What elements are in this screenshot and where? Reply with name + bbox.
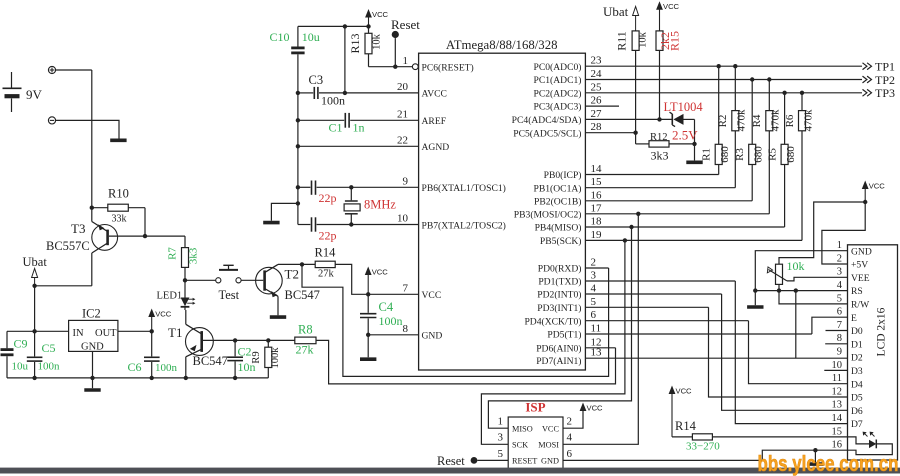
svg-text:PB3(MOSI/OC2): PB3(MOSI/OC2): [514, 209, 582, 220]
power VCC at chip pin 7: [366, 292, 370, 296]
svg-text:VCC: VCC: [869, 182, 886, 191]
wire pot wiper to LCD VEE: [787, 277, 848, 281]
svg-text:11: 11: [832, 373, 842, 384]
svg-text:SCK: SCK: [512, 440, 528, 449]
wire PD1 to LCD D7: [735, 281, 847, 424]
svg-text:100n: 100n: [38, 361, 61, 373]
wire PD5 to LCD E: [812, 317, 848, 334]
voltage regulator IC2: [69, 307, 118, 353]
svg-text:2: 2: [837, 253, 842, 264]
svg-text:26: 26: [591, 95, 603, 107]
svg-text:19: 19: [591, 229, 603, 241]
wire LCD RS row (grounded): [755, 290, 847, 292]
resistor R1 680: [701, 66, 732, 174]
svg-text:22p: 22p: [319, 229, 337, 243]
capacitor C3 100n: [298, 73, 345, 108]
transistor T2 BC547 (NPN): [256, 264, 320, 315]
ground xtal: [263, 221, 279, 225]
diode LT1004 2.5V: [664, 100, 704, 160]
resistor R11 10k: [615, 31, 649, 144]
pin 26 PC3(ADC3): [534, 95, 619, 113]
svg-text:TP2: TP2: [875, 73, 895, 87]
pin 16 PB2(OC1B): [534, 189, 752, 207]
wire ISP MOSI to PB3: [563, 214, 638, 444]
svg-text:VCC: VCC: [372, 268, 389, 277]
svg-text:28: 28: [591, 121, 603, 133]
wire R8 to PD6: [316, 340, 616, 384]
pushbutton Test: [185, 265, 263, 302]
svg-text:VCC: VCC: [587, 404, 604, 413]
svg-text:680: 680: [719, 146, 731, 163]
pin 4 PD2(INT0): [537, 283, 721, 301]
svg-text:GND: GND: [81, 342, 104, 353]
svg-text:PC2(ADC2): PC2(ADC2): [534, 88, 582, 99]
wire AVCC row to chip: [345, 92, 419, 94]
svg-text:1: 1: [403, 55, 409, 67]
svg-text:2: 2: [591, 257, 597, 269]
svg-text:PB1(OC1A): PB1(OC1A): [534, 183, 582, 194]
svg-text:22p: 22p: [319, 191, 337, 205]
svg-text:C9: C9: [14, 337, 28, 351]
transistor T1 BC547 (NPN, mirrored): [168, 310, 228, 378]
resistor R9 100k: [251, 340, 281, 378]
ground at C4: [360, 357, 376, 361]
ground LCD backlight: [807, 462, 823, 466]
svg-text:IC2: IC2: [82, 307, 101, 321]
pin 6 LCD E: [837, 307, 857, 324]
node TP3 taps: [782, 91, 786, 95]
svg-text:PC4(ADC4/SDA): PC4(ADC4/SDA): [512, 115, 582, 126]
node TP3: [863, 89, 867, 96]
wire PD3 to LCD D5: [709, 307, 848, 397]
svg-text:R/W: R/W: [851, 300, 870, 311]
pin 11 PD5(T1): [547, 323, 812, 341]
svg-text:23: 23: [591, 55, 603, 67]
LED LED1: [157, 280, 196, 310]
pin 11 LCD D4: [832, 373, 863, 390]
svg-text:470k: 470k: [770, 109, 782, 132]
pin 6 PD4(XCK/T0): [524, 309, 748, 327]
pin 27 PC4(ADC4/SDA): [512, 108, 673, 126]
wire R10 right to T3 base line: [144, 208, 146, 236]
pin 3 LCD VEE: [837, 267, 870, 284]
pin 14 LCD D7: [832, 413, 863, 430]
svg-text:8MHz: 8MHz: [364, 198, 396, 212]
svg-text:5: 5: [498, 448, 504, 460]
svg-text:9: 9: [403, 176, 409, 188]
svg-text:R3: R3: [734, 148, 746, 161]
wire ground rail: [7, 377, 268, 379]
svg-text:E: E: [851, 313, 857, 324]
pin 12 LCD D5: [832, 386, 863, 403]
pin 18 PB4(MISO): [535, 216, 785, 234]
resistor R14 33-270 (backlight): [672, 419, 720, 453]
pin 8 LCD D1: [837, 333, 863, 350]
svg-text:R15: R15: [668, 31, 682, 51]
svg-text:6: 6: [837, 307, 842, 318]
svg-text:R9: R9: [251, 351, 262, 363]
svg-text:VCC: VCC: [372, 10, 389, 19]
node TP2: [863, 76, 867, 83]
pin 15 LCD backlight: [832, 426, 843, 437]
svg-text:10: 10: [397, 213, 409, 225]
svg-text:D0: D0: [851, 326, 863, 337]
wire LCD D3 stub: [824, 369, 847, 371]
op-amp U1 ATmega8/88/168/328 box: [419, 53, 586, 370]
capacitor C1 1n (AREF): [298, 113, 419, 135]
test point Reset (bottom): [437, 454, 508, 468]
power VCC at LCD: [862, 181, 869, 190]
node LCD pin16 ground tap: [813, 448, 817, 452]
wire AGND row: [298, 145, 419, 147]
svg-text:10k: 10k: [787, 259, 805, 273]
pin 21 AREF: [397, 109, 446, 128]
svg-text:bbs.ylcee.com.cn: bbs.ylcee.com.cn: [758, 451, 899, 476]
net Ubat (left): [23, 255, 48, 286]
wire IC2 GND down: [92, 351, 94, 378]
svg-text:D5: D5: [851, 393, 863, 404]
ground battery minus: [110, 139, 126, 143]
svg-text:11: 11: [591, 323, 602, 335]
potentiometer 10k: [767, 259, 804, 284]
svg-text:PC6(RESET): PC6(RESET): [422, 63, 474, 74]
pin 5 PD3(INT1): [537, 296, 708, 314]
svg-text:GND: GND: [851, 246, 872, 257]
svg-text:4: 4: [567, 432, 573, 444]
svg-text:OUT: OUT: [95, 328, 117, 339]
wire LCD pin1 GND: [755, 251, 847, 291]
svg-text:MISO: MISO: [512, 424, 533, 433]
wire chip GND pin 8: [368, 334, 418, 336]
svg-text:21: 21: [397, 109, 408, 121]
pin 8 GND: [403, 323, 443, 342]
svg-text:18: 18: [591, 216, 603, 228]
svg-text:14: 14: [591, 163, 603, 175]
svg-text:MOSI: MOSI: [538, 440, 559, 449]
svg-text:PD6(AIN0): PD6(AIN0): [536, 343, 581, 354]
LED backlight (inside LCD): [848, 432, 893, 455]
svg-text:100n: 100n: [379, 314, 403, 328]
capacitor C4 100n: [360, 294, 403, 335]
svg-text:Ubat: Ubat: [603, 4, 629, 19]
svg-text:D7: D7: [851, 419, 863, 430]
ground LCD: [754, 291, 756, 306]
svg-text:LED1: LED1: [157, 291, 183, 302]
svg-text:6: 6: [567, 448, 573, 460]
battery B1 9V: [3, 72, 43, 112]
svg-text:PD3(INT1): PD3(INT1): [537, 303, 581, 314]
svg-text:22: 22: [397, 135, 408, 147]
pin 13 LCD D6: [832, 400, 863, 417]
svg-text:C5: C5: [42, 341, 56, 355]
svg-text:5: 5: [591, 296, 597, 308]
svg-text:T2: T2: [285, 267, 299, 282]
wire ISP MISO to PB4: [488, 227, 631, 428]
svg-text:VCC: VCC: [542, 424, 560, 433]
svg-text:10u: 10u: [302, 30, 320, 44]
svg-text:470k: 470k: [736, 109, 748, 132]
wire VCC top rail: [298, 25, 369, 27]
wire LCD D0 stub: [826, 330, 848, 332]
svg-text:C2: C2: [238, 345, 252, 359]
svg-text:TP1: TP1: [875, 60, 895, 74]
pin 20 AVCC: [397, 81, 447, 100]
svg-text:1: 1: [837, 240, 842, 251]
crystal Q1 8MHz: [344, 185, 396, 227]
svg-text:33−270: 33−270: [686, 441, 720, 453]
node R7/LED1/Test junction: [183, 278, 187, 282]
svg-text:27: 27: [591, 108, 603, 120]
node T3 emitter junction: [90, 206, 94, 210]
test point Reset (top): [391, 17, 420, 67]
node R11 on PC5 row: [633, 131, 637, 135]
pin 9 LCD D2: [837, 347, 863, 364]
capacitor C6 100n: [128, 332, 178, 378]
svg-text:GND: GND: [422, 331, 443, 342]
svg-text:VCC: VCC: [663, 2, 680, 11]
capacitor C9 10u: [1, 331, 29, 378]
svg-text:R13: R13: [348, 33, 362, 53]
svg-text:3k3: 3k3: [187, 247, 199, 264]
svg-text:10u: 10u: [12, 361, 29, 373]
resistor R3 680: [734, 80, 765, 201]
svg-text:17: 17: [591, 202, 603, 214]
capacitor C10 10u: [270, 26, 320, 93]
wire T1 base row: [202, 339, 295, 341]
power VCC at backlight R14: [669, 386, 676, 395]
svg-text:15: 15: [591, 176, 603, 188]
wire T2 node to PD0: [302, 264, 609, 376]
capacitor C5 100n: [27, 331, 60, 378]
pin 10 LCD D3: [832, 360, 863, 377]
pin 12 PD6(AIN0): [536, 336, 615, 354]
svg-text:3k3: 3k3: [651, 149, 669, 163]
pin 1 LCD GND: [837, 240, 872, 257]
pin 25 PC2(ADC2): [534, 81, 862, 99]
resistor R14 27k (top): [315, 246, 337, 280]
svg-text:470k: 470k: [802, 109, 814, 132]
pin 13 PD7(AIN1): [536, 347, 847, 368]
svg-text:PD1(TXD): PD1(TXD): [538, 277, 581, 288]
svg-text:PC5(ADC5/SCL): PC5(ADC5/SCL): [513, 128, 581, 139]
svg-text:8: 8: [403, 323, 409, 335]
svg-text:16: 16: [832, 440, 843, 451]
svg-text:R1: R1: [701, 148, 713, 161]
node TP2 taps: [750, 77, 754, 81]
svg-text:PB0(ICP): PB0(ICP): [544, 170, 582, 181]
svg-text:PC3(ADC3): PC3(ADC3): [534, 102, 582, 113]
pin 7 LCD D0: [837, 320, 863, 337]
svg-text:R5: R5: [766, 148, 778, 161]
svg-text:14: 14: [832, 413, 843, 424]
svg-text:VCC: VCC: [676, 387, 693, 396]
svg-text:+5V: +5V: [851, 260, 868, 271]
pin 1 PC6(RESET) bubble: [412, 64, 418, 70]
svg-text:16: 16: [591, 189, 603, 201]
pin 24 PC1(ADC1): [534, 68, 862, 86]
svg-text:Reset: Reset: [437, 454, 465, 468]
svg-text:10k: 10k: [637, 31, 648, 48]
svg-text:3: 3: [591, 270, 597, 282]
wire LCD D1 stub: [825, 343, 847, 345]
svg-text:RESET: RESET: [512, 457, 537, 466]
resistor R12 3k3: [636, 132, 697, 163]
svg-text:Test: Test: [219, 288, 240, 302]
pin 16 LCD backlight: [832, 440, 843, 451]
resistor R2 470k: [717, 66, 748, 188]
svg-text:100n: 100n: [321, 94, 345, 108]
resistor R10 33k: [92, 187, 145, 225]
svg-text:D6: D6: [851, 406, 863, 417]
pin 28 PC5(ADC5/SCL): [513, 121, 635, 139]
capacitor 22p (XTAL1): [298, 181, 419, 206]
svg-text:PB5(SCK): PB5(SCK): [540, 236, 582, 247]
svg-text:PD2(INT0): PD2(INT0): [537, 290, 581, 301]
svg-text:R10: R10: [108, 187, 129, 201]
svg-text:TP3: TP3: [875, 86, 895, 100]
svg-text:BC557C: BC557C: [46, 239, 90, 253]
svg-text:1: 1: [498, 416, 504, 428]
resistor R8 27k: [295, 323, 316, 357]
svg-text:33k: 33k: [112, 214, 127, 225]
pin 9 PB6(XTAL1/TOSC1): [403, 176, 506, 195]
wire PD4 to LCD D4: [749, 321, 848, 384]
svg-text:LT1004: LT1004: [664, 100, 704, 114]
pin 17 PB3(MOSI/OC2): [514, 202, 770, 220]
svg-text:VEE: VEE: [851, 273, 870, 284]
power VCC at regulator out: [148, 309, 155, 318]
svg-text:27k: 27k: [318, 269, 335, 280]
svg-text:T3: T3: [71, 221, 85, 236]
wire R13 bottom to chip pin 1: [369, 66, 413, 68]
svg-text:10: 10: [832, 360, 843, 371]
resistor R7 3k3: [167, 236, 200, 280]
capacitor 22p (XTAL2): [298, 217, 419, 242]
svg-text:ATmega8/88/168/328: ATmega8/88/168/328: [446, 38, 558, 52]
svg-text:R6: R6: [784, 114, 796, 127]
svg-text:680: 680: [785, 146, 797, 163]
svg-text:4: 4: [837, 280, 843, 291]
svg-text:100k: 100k: [270, 347, 281, 369]
svg-text:PB7(XTAL2/TOSC2): PB7(XTAL2/TOSC2): [422, 220, 506, 231]
svg-text:7: 7: [403, 283, 409, 295]
pin 22 AGND: [397, 135, 449, 154]
svg-text:R14: R14: [315, 246, 337, 260]
svg-text:Ubat: Ubat: [23, 255, 48, 269]
svg-text:3: 3: [498, 432, 504, 444]
wire xtal ground branch: [271, 203, 298, 220]
svg-text:7: 7: [837, 320, 842, 331]
svg-text:4: 4: [591, 283, 597, 295]
svg-text:C3: C3: [309, 73, 324, 87]
svg-text:PD4(XCK/T0): PD4(XCK/T0): [524, 316, 581, 327]
svg-text:2.5V: 2.5V: [672, 128, 698, 143]
svg-text:LCD 2x16: LCD 2x16: [876, 307, 888, 356]
wire battery minus to ground: [56, 120, 119, 138]
capacitor C2 10n: [227, 340, 255, 378]
svg-text:PB2(OC1B): PB2(OC1B): [534, 196, 581, 207]
wire pot top to VCC node: [779, 202, 865, 264]
svg-text:13: 13: [832, 400, 843, 411]
svg-text:AREF: AREF: [422, 116, 447, 127]
pin 1 PC6(RESET): [403, 55, 474, 74]
svg-text:VCC: VCC: [422, 290, 442, 301]
power VCC at R15: [656, 1, 663, 10]
svg-text:R11: R11: [615, 31, 629, 51]
pin 19 PB5(SCK): [540, 229, 802, 247]
svg-text:D4: D4: [851, 379, 863, 390]
wire R14 to LCD pin 15: [712, 436, 847, 438]
svg-text:R7: R7: [167, 247, 179, 260]
svg-text:13: 13: [591, 347, 603, 359]
ground main rail symbol: [92, 378, 94, 388]
svg-text:AGND: AGND: [422, 142, 450, 153]
svg-text:100n: 100n: [155, 362, 178, 374]
pin 2 LCD +5V: [837, 253, 868, 270]
svg-text:C10: C10: [270, 30, 290, 44]
svg-text:25: 25: [591, 81, 603, 93]
svg-text:ISP: ISP: [525, 400, 545, 415]
svg-text:15: 15: [832, 426, 843, 437]
pin 4 LCD RS: [837, 280, 863, 297]
display LCD 2x16 box: [848, 245, 898, 460]
battery plus terminal: [48, 66, 55, 73]
wire VCC node to LCD +5V: [822, 202, 865, 264]
transistor T3 BC557C (PNP): [46, 208, 118, 286]
pin 7 VCC: [403, 283, 442, 302]
svg-text:PB6(XTAL1/TOSC1): PB6(XTAL1/TOSC1): [422, 183, 506, 194]
svg-text:PC1(ADC1): PC1(ADC1): [534, 75, 582, 86]
wire IN rail: [7, 330, 69, 332]
power VCC at R13: [365, 9, 372, 18]
wire T3 base to R7: [109, 235, 185, 237]
svg-text:PD5(T1): PD5(T1): [547, 330, 581, 341]
resistor R5 680: [766, 93, 797, 227]
svg-text:T1: T1: [168, 325, 182, 340]
resistor R15 2k2: [656, 31, 682, 120]
pin 2 PD0(RXD): [538, 257, 609, 275]
svg-text:10k: 10k: [371, 33, 382, 50]
ground LT1004: [686, 161, 702, 165]
node R15 on PC4 row: [657, 117, 661, 121]
svg-text:3: 3: [837, 267, 842, 278]
pin 15 PB1(OC1A): [534, 176, 736, 194]
svg-text:IN: IN: [73, 328, 84, 339]
svg-text:PD7(AIN1): PD7(AIN1): [536, 356, 581, 367]
net Ubat (top): [603, 4, 639, 31]
svg-text:D1: D1: [851, 339, 863, 350]
wire PD2 to LCD D6: [722, 294, 848, 410]
svg-text:R14: R14: [675, 419, 697, 433]
pin 23 PC0(ADC0): [534, 55, 862, 73]
power VCC at ISP: [563, 409, 583, 428]
svg-text:C4: C4: [379, 300, 394, 314]
pin 5 LCD R/W: [837, 293, 870, 310]
svg-text:AVCC: AVCC: [422, 89, 447, 100]
wire VCC to AVCC drop: [344, 26, 346, 93]
svg-text:680: 680: [753, 146, 765, 163]
resistor R6 470k: [784, 93, 815, 241]
svg-text:12: 12: [832, 386, 843, 397]
svg-text:R8: R8: [298, 323, 313, 337]
svg-text:PD0(RXD): PD0(RXD): [538, 264, 582, 275]
resistor R13 10k: [348, 26, 382, 66]
pin 3 PD1(TXD): [538, 270, 735, 288]
svg-text:2: 2: [567, 416, 573, 428]
svg-text:RS: RS: [851, 286, 863, 297]
wire ISP SCK to PB5: [481, 240, 625, 444]
pin 10 PB7(XTAL2/TOSC2): [397, 213, 506, 232]
